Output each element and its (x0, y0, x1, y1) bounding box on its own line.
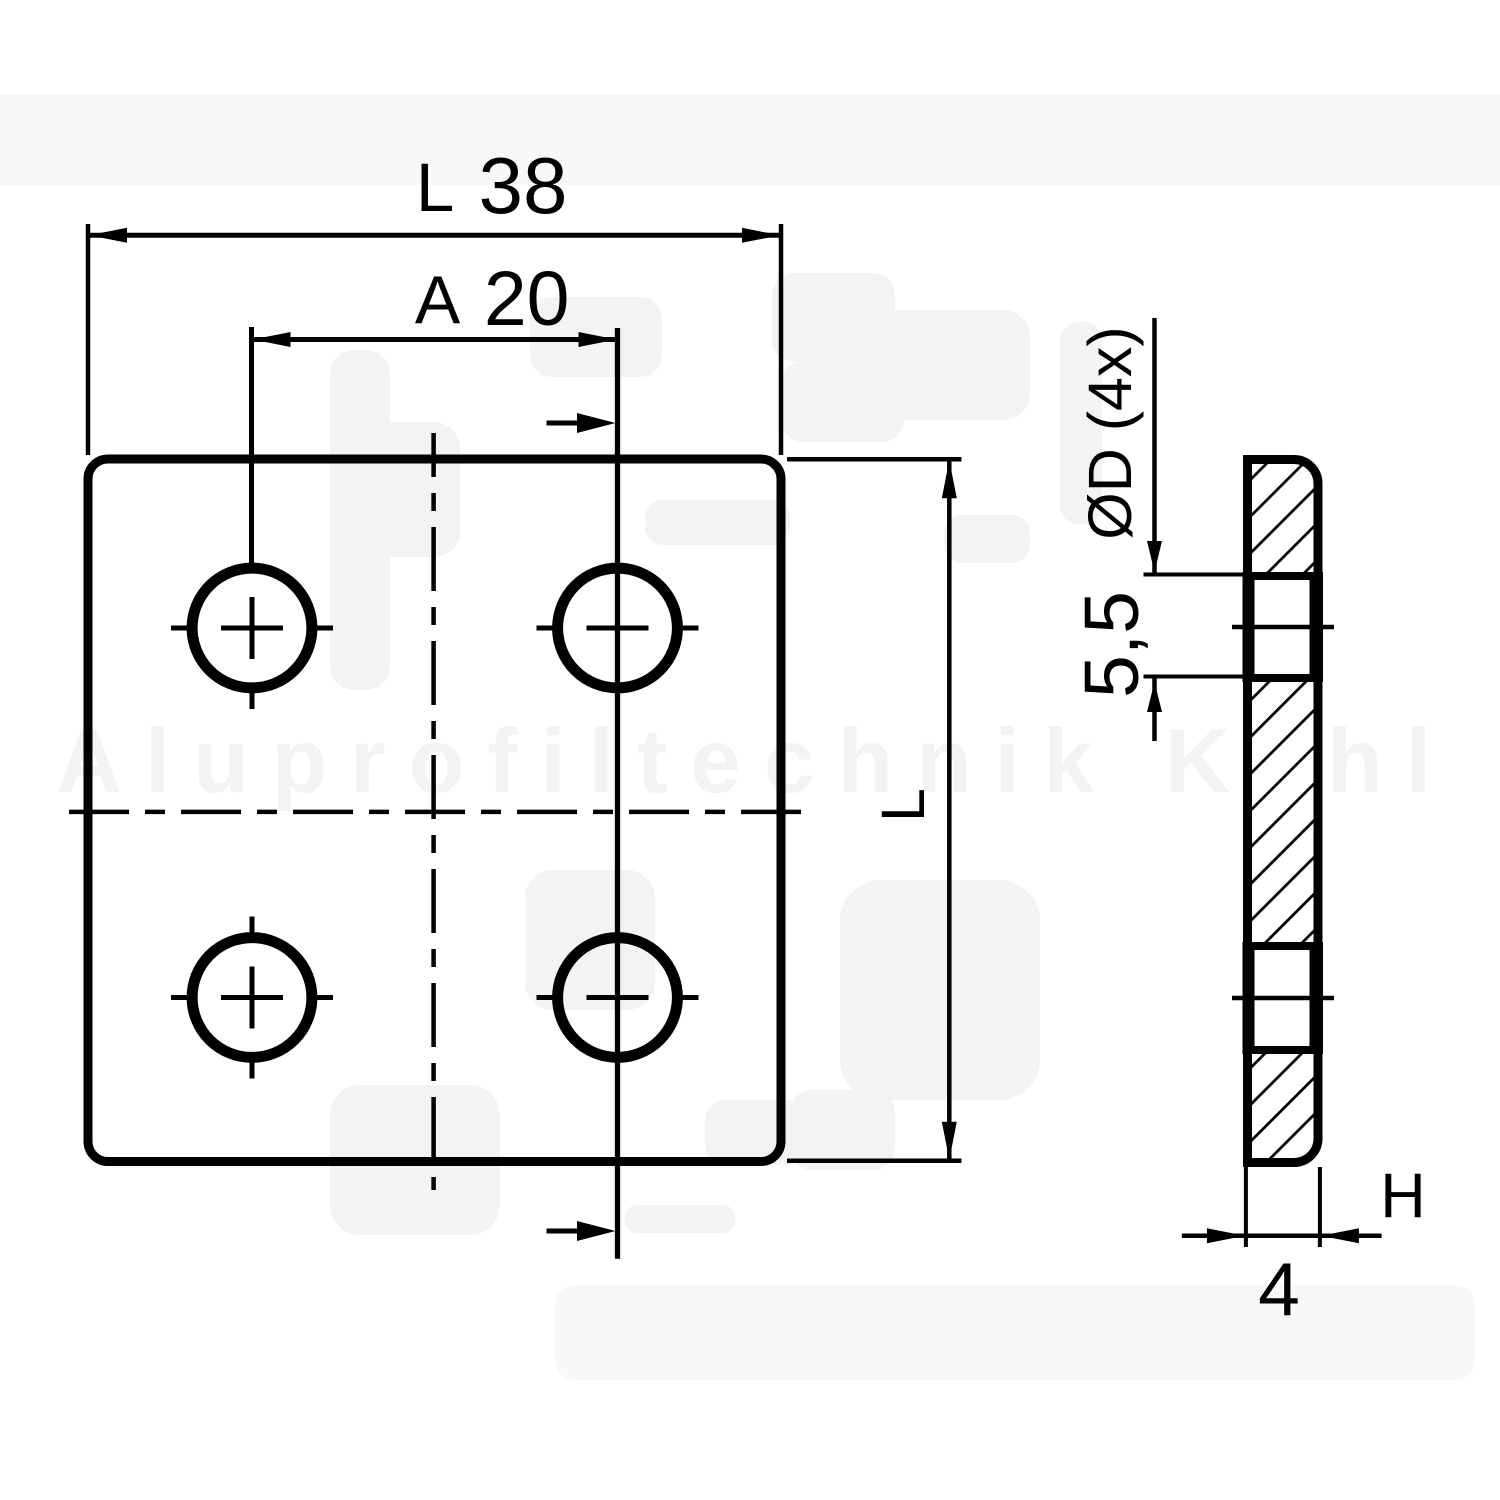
svg-text:A: A (415, 262, 461, 338)
svg-text:38: 38 (479, 141, 568, 230)
svg-text:H: H (1380, 1161, 1426, 1231)
svg-text:5,5: 5,5 (1069, 591, 1155, 698)
svg-text:ØD (4x): ØD (4x) (1076, 326, 1144, 540)
svg-text:L: L (869, 788, 937, 822)
svg-text:L: L (416, 149, 454, 226)
svg-text:4: 4 (1258, 1247, 1300, 1331)
svg-text:20: 20 (484, 256, 570, 342)
